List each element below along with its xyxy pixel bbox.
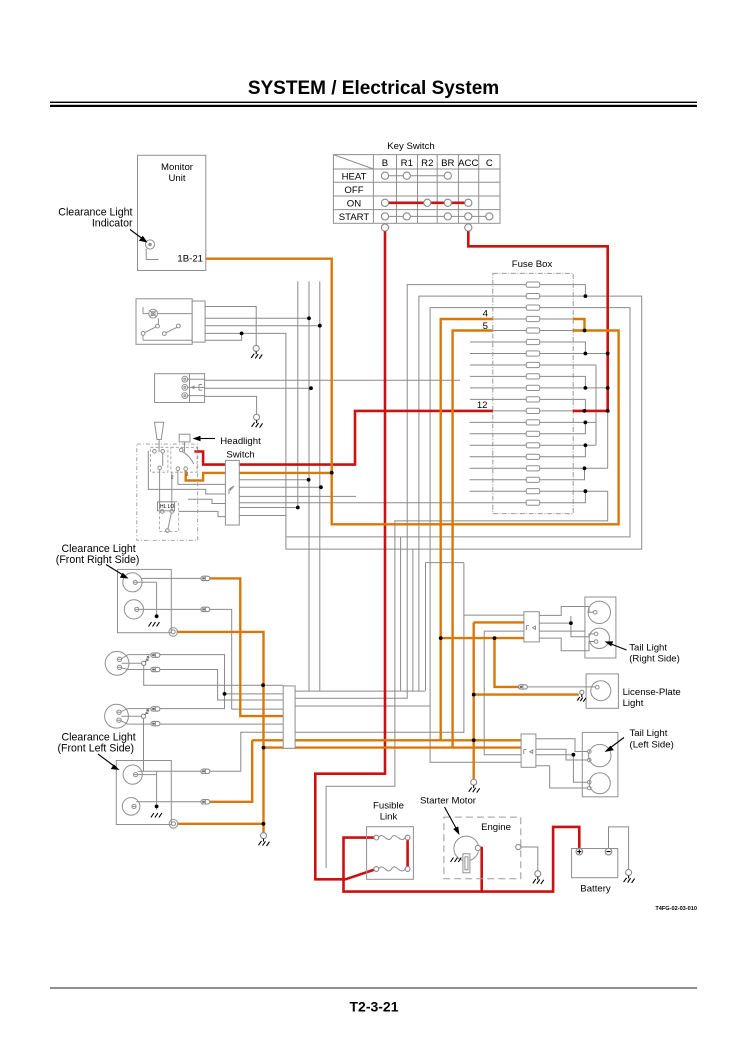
box1 lamp [143, 307, 192, 318]
svg-text:2: 2 [171, 475, 174, 480]
tail right upper lamp [588, 601, 610, 623]
headlight right pigtail ground [142, 656, 150, 665]
clearance right lower lamp [124, 600, 143, 619]
wire fuse11 right joins red fuse12 [573, 399, 586, 411]
ground G3 [259, 833, 270, 846]
wire orange clearance bus y740 [252, 739, 521, 741]
wire fuse17-18 join right [573, 411, 608, 480]
harness verticals from monitor area [298, 281, 320, 691]
svg-text:Unit: Unit [168, 173, 185, 184]
wire fuse2 right to x641 bus y549 [286, 296, 642, 691]
tail light left box [582, 732, 618, 796]
svg-text:SYSTEM / Electrical System: SYSTEM / Electrical System [248, 78, 499, 99]
engine dashed box [444, 817, 521, 879]
tail right lower lamp [589, 628, 609, 648]
starter motor [454, 836, 479, 861]
box1 connector bar [192, 301, 205, 342]
grommet front left [169, 820, 178, 829]
svg-text:Battery: Battery [580, 884, 611, 895]
svg-text:License-Plate: License-Plate [623, 687, 681, 698]
headlight2 middle lead drop [143, 716, 145, 771]
tail left upper lamp [588, 744, 612, 766]
fuse box dashed border [493, 273, 573, 513]
headlight front right [105, 651, 150, 675]
ground G1 [251, 345, 262, 358]
left harness connector [283, 686, 295, 748]
headlight1 middle lead to pin1 [144, 663, 284, 685]
key switch terminal ACC pin [465, 224, 472, 231]
svg-text:Key Switch: Key Switch [387, 141, 434, 152]
ground G4 [469, 779, 480, 792]
svg-text:1B-21: 1B-21 [177, 254, 203, 265]
header double rule [50, 102, 697, 103]
svg-text:ON: ON [347, 198, 361, 209]
arrow clearance right [106, 565, 123, 576]
key switch HEAT row contacts [385, 175, 448, 177]
key switch ON row contacts (red) [385, 202, 468, 205]
clearance left lower lamp [122, 798, 140, 816]
starter solenoid [463, 854, 470, 873]
fusible link elements [379, 836, 406, 871]
arrow to indicator [130, 230, 144, 240]
wire orange bus y747 [264, 746, 522, 748]
box2 terminals [182, 376, 205, 398]
wire red fusible link right side [406, 838, 409, 869]
clearance left ground hatch [151, 813, 162, 818]
wire red key B to fusible link [315, 231, 385, 879]
clearance left lower lamp gray stub [140, 801, 202, 803]
svg-text:OFF: OFF [344, 185, 363, 196]
wire red fuse12 right [573, 410, 608, 413]
grommet front right [169, 628, 178, 637]
svg-text:Starter Motor: Starter Motor [420, 796, 477, 807]
wire orange tail feed y638 [441, 637, 524, 639]
wire fuse9-10 join right [573, 376, 586, 388]
inline connectors (pills) [151, 576, 528, 804]
clearance right upper lamp gray stub [141, 577, 201, 579]
box1 wire 5 [205, 333, 242, 340]
box2 wire to ground [205, 396, 257, 414]
headlight switch connector pins right [239, 480, 356, 516]
wire fuse20 left [239, 502, 492, 504]
svg-text:(Left Side): (Left Side) [630, 740, 674, 751]
svg-text:B: B [382, 158, 388, 169]
svg-text:T4FG-02-03-010: T4FG-02-03-010 [655, 906, 697, 912]
headlight left pigtail ground [141, 709, 149, 718]
wire fuse10 right [573, 387, 608, 389]
box1 switch contacts [141, 318, 192, 340]
svg-text:(Right Side): (Right Side) [629, 654, 680, 665]
svg-text:1: 1 [186, 472, 189, 477]
headlight switch knob [179, 434, 190, 442]
key switch terminal B pin [381, 224, 388, 231]
wire orange license-plate feed [495, 638, 520, 687]
box2 body [155, 374, 205, 403]
bus y562 [426, 563, 464, 733]
wire fuse6-7 join right [573, 342, 586, 354]
arrow headlight switch [199, 438, 215, 440]
wire red headlight switch to fuse12 [194, 411, 492, 465]
clearance right ground hatch [149, 622, 160, 627]
ground G5 [533, 871, 544, 884]
key switch START row contacts [385, 215, 489, 217]
clearance left upper lamp [123, 765, 157, 810]
box2 arrow glyph [191, 385, 195, 389]
battery [572, 849, 618, 878]
clearance right upper lamp [123, 573, 157, 619]
clearance right lower lamp wire to pin4 [140, 609, 284, 709]
tail light right box [585, 597, 616, 658]
svg-text:(Front Left Side): (Front Left Side) [58, 743, 135, 755]
wire orange grommet ground net [177, 632, 264, 833]
fuse left stubs rows 6-11, 13-19 [470, 342, 493, 491]
arrow starter [445, 807, 457, 829]
headlight1 bottom wire to pin3 [159, 670, 283, 701]
wire fuse3 left to bus x430 to tail-left connector [430, 308, 521, 763]
headlight switch HL LO sub-box [158, 502, 175, 511]
wire red fusible link to starter and battery [344, 827, 580, 892]
key switch column headers [382, 158, 493, 169]
wire orange headlight switch feed [186, 471, 332, 481]
tail-right connector pin3 vertical to y755 [484, 631, 573, 755]
svg-text:Fusible: Fusible [373, 801, 404, 812]
tail light right connector [524, 612, 539, 642]
box2 wire 1 [205, 379, 460, 381]
wire orange fuse4 right join [573, 319, 585, 331]
wire fuse1-2 join right [573, 285, 586, 297]
clearance light indicator lamp [145, 240, 158, 260]
clearance left upper lamp wire to pin7 bus y732.3 [139, 732, 464, 771]
fusible link box [367, 827, 414, 880]
arrow clearance left [98, 754, 114, 766]
tail-right lamp wires [539, 607, 593, 616]
clearance light front left box [116, 761, 171, 825]
wire orange clearance left lower lamp [210, 740, 252, 802]
wire orange clearance right upper lamp to pin5 [210, 578, 284, 716]
license lamp wire [527, 686, 595, 688]
wire red key ACC to fuse bus [468, 231, 607, 411]
svg-text:R1: R1 [401, 158, 413, 169]
clearance light front right box [118, 569, 172, 632]
wire fuse1 left to bus x407 [295, 285, 493, 699]
headlight1+2 top tie [159, 655, 224, 709]
box1 wire 3 [205, 325, 320, 327]
fuses F1-F20 [493, 285, 573, 503]
svg-text:R2: R2 [421, 158, 433, 169]
svg-text:Monitor: Monitor [161, 162, 194, 173]
headlight switch inner dashed boxes [151, 447, 168, 472]
wire fuse19-20 join right to bus y521 [326, 491, 608, 868]
box1 wire to ground [205, 307, 256, 346]
ground G6 [624, 870, 635, 883]
monitor unit box [138, 155, 206, 270]
wire fuse7 right [573, 353, 608, 355]
headlight front left [105, 704, 151, 728]
ground G2 [252, 414, 263, 427]
svg-text:Tail Light: Tail Light [630, 728, 668, 739]
arrow tail right [611, 644, 627, 650]
svg-text:Light: Light [623, 698, 644, 709]
svg-text:HL LO: HL LO [160, 504, 174, 510]
engine terminal to ground [521, 847, 538, 871]
box1 body [136, 299, 192, 345]
box1 wire 4 [205, 333, 286, 549]
license plate light box [586, 674, 618, 708]
wire fuse13-14 join right [573, 422, 596, 433]
wire orange front-left grommet [178, 823, 264, 825]
tail-right connector pin1 [464, 614, 524, 616]
wire fuse3 right to x630 bus y537 [286, 308, 630, 691]
wire to pin2 [225, 693, 284, 695]
headlight switch contacts [153, 448, 194, 532]
arrow tail left [610, 738, 624, 749]
svg-text:Link: Link [380, 812, 398, 823]
wire orange monitor 1B-21 to fuse 4/5 right [206, 259, 619, 525]
headlight switch connector pins left [148, 451, 225, 517]
starter ground hatch [451, 858, 462, 863]
svg-text:Indicator: Indicator [92, 218, 133, 230]
svg-text:T2-3-21: T2-3-21 [349, 999, 398, 1015]
key switch row labels [339, 171, 370, 223]
svg-text:ACC: ACC [458, 158, 478, 169]
wire orange license ground return [474, 693, 579, 695]
svg-text:START: START [339, 212, 370, 223]
svg-text:Fuse Box: Fuse Box [512, 259, 553, 270]
wire fuse2 left to bus x419 [419, 296, 493, 691]
wire fuse8 right stub [573, 365, 596, 445]
wire red starter branch [480, 848, 482, 892]
svg-text:HEAT: HEAT [342, 171, 367, 182]
headlight switch lever flag [155, 422, 164, 439]
headlight switch dashed enclosure [137, 444, 198, 540]
footer rule [50, 987, 697, 988]
wire orange tail-right pin2 to ground [474, 622, 524, 779]
key switch table grid [333, 155, 500, 224]
svg-text:5: 5 [483, 321, 488, 332]
svg-text:C: C [486, 158, 493, 169]
tail left lower lamp [588, 773, 611, 794]
svg-text:Switch: Switch [226, 450, 254, 461]
svg-text:4: 4 [483, 309, 489, 320]
svg-text:Headlight: Headlight [220, 436, 261, 447]
license lamp [591, 681, 611, 701]
svg-text:BR: BR [441, 158, 454, 169]
engine terminal [516, 844, 521, 849]
svg-text:(Front Right Side): (Front Right Side) [56, 554, 140, 566]
headlight switch connector [225, 460, 239, 525]
tail-left lower lamp drop [573, 755, 587, 783]
box2 wire 2 [205, 387, 311, 389]
svg-text:12: 12 [477, 400, 488, 411]
box1 wire 2 [205, 317, 309, 319]
left connector right pins [295, 691, 430, 706]
license pigtail ground [577, 690, 586, 702]
wire orange fuse5 left to bus y747 [453, 331, 493, 748]
tail light left connector [521, 734, 536, 767]
headlight2 bottom wire to pin6 [159, 723, 283, 725]
svg-text:Tail Light: Tail Light [629, 643, 667, 654]
tail-left lamp wires [536, 739, 588, 752]
svg-text:Engine: Engine [481, 822, 511, 833]
wire fuse15-16 join right [573, 445, 596, 457]
wire orange fuse4 left to clearance bus y740 [441, 319, 493, 740]
battery negative to ground [609, 827, 629, 870]
